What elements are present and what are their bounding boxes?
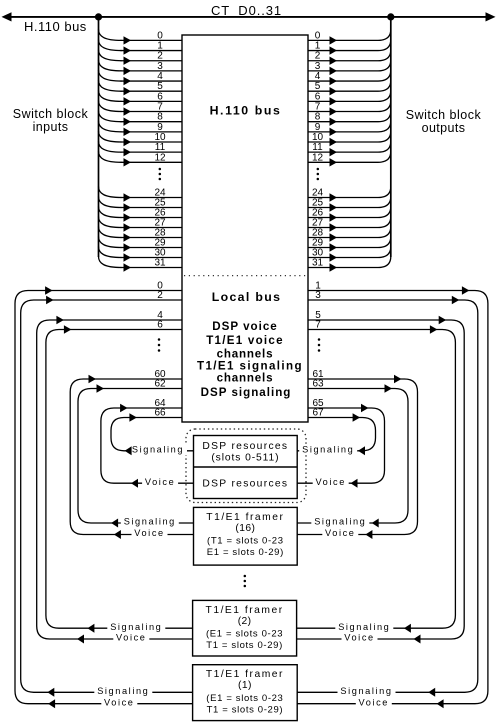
svg-text:DSP resources: DSP resources [202, 441, 288, 452]
svg-text:T1 = slots 0-29): T1 = slots 0-29) [206, 640, 283, 651]
svg-text:(1): (1) [238, 680, 252, 691]
svg-text:outputs: outputs [422, 121, 466, 135]
svg-text:Voice: Voice [344, 633, 374, 643]
svg-text:31: 31 [312, 258, 324, 269]
svg-text:Voice: Voice [315, 477, 345, 487]
svg-text:31: 31 [154, 258, 166, 269]
svg-text:Voice: Voice [145, 477, 175, 487]
svg-text:12: 12 [312, 152, 324, 163]
svg-text:inputs: inputs [33, 120, 69, 134]
svg-text:T1/E1 framer: T1/E1 framer [206, 605, 284, 616]
svg-text:Signaling: Signaling [124, 517, 176, 527]
svg-text:T1/E1 framer: T1/E1 framer [206, 512, 284, 523]
svg-text:12: 12 [154, 152, 166, 163]
svg-text:(16): (16) [235, 523, 255, 534]
svg-text:DSP voice: DSP voice [212, 320, 278, 333]
svg-text:(slots 0-511): (slots 0-511) [211, 453, 279, 464]
svg-text:channels: channels [217, 372, 274, 385]
svg-text:CT_D0..31: CT_D0..31 [211, 3, 282, 18]
svg-text:Signaling: Signaling [340, 686, 392, 696]
svg-text:Voice: Voice [116, 633, 146, 643]
svg-text:Voice: Voice [325, 528, 355, 538]
svg-text:Switch block: Switch block [406, 108, 482, 122]
svg-text:Signaling: Signaling [314, 517, 366, 527]
svg-text:(2): (2) [238, 616, 252, 627]
svg-text:(E1 = slots 0-23: (E1 = slots 0-23 [206, 629, 283, 640]
svg-text:Signaling: Signaling [338, 622, 390, 632]
svg-text:H.110 bus: H.110 bus [210, 104, 282, 118]
svg-text:Voice: Voice [359, 697, 389, 707]
svg-text:Switch block: Switch block [13, 107, 89, 121]
svg-text:Signaling: Signaling [302, 445, 354, 455]
svg-text:Signaling: Signaling [132, 445, 184, 455]
svg-text:(T1 = slots 0-23: (T1 = slots 0-23 [207, 536, 284, 547]
svg-text:T1 = slots 0-29): T1 = slots 0-29) [207, 705, 284, 716]
svg-text:E1 = slots 0-29): E1 = slots 0-29) [207, 547, 284, 558]
svg-text:H.110 bus: H.110 bus [24, 19, 87, 34]
svg-text:Local bus: Local bus [212, 290, 282, 304]
svg-text:(E1 = slots 0-23: (E1 = slots 0-23 [206, 693, 283, 704]
svg-text:T1/E1 framer: T1/E1 framer [206, 669, 284, 680]
svg-text:Signaling: Signaling [110, 622, 162, 632]
svg-text:DSP resources: DSP resources [202, 479, 288, 490]
svg-text:T1/E1 voice: T1/E1 voice [206, 334, 284, 347]
svg-text:DSP signaling: DSP signaling [201, 386, 292, 399]
svg-text:Voice: Voice [104, 697, 134, 707]
svg-text:Voice: Voice [134, 528, 164, 538]
svg-text:Signaling: Signaling [97, 686, 149, 696]
